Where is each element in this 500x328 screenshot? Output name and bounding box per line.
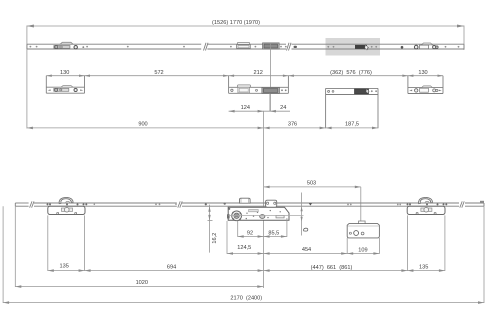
detail box 576 xyxy=(326,88,378,128)
handle hub housing above rail xyxy=(240,198,251,203)
dimension 503 xyxy=(264,181,361,189)
extension line right top xyxy=(463,26,465,51)
svg-text:130: 130 xyxy=(418,70,427,76)
svg-text:187,5: 187,5 xyxy=(345,121,359,127)
dimension 1770 overall top xyxy=(27,20,464,27)
extension striker right xyxy=(378,238,380,254)
roller cam component top-right on rail xyxy=(414,43,438,49)
dimension 124 / 24 xyxy=(229,105,290,112)
extension left comp left xyxy=(47,215,49,271)
tilt lock component bottom-left xyxy=(48,197,85,214)
top rail break left xyxy=(204,43,209,51)
cylinder housing xyxy=(266,200,277,207)
main vertical axis gearbox xyxy=(263,111,265,288)
detail row dimension line xyxy=(46,75,443,77)
screws bottom rail xyxy=(47,203,448,206)
svg-text:694: 694 xyxy=(167,264,176,270)
tilt lock component bottom-right xyxy=(407,197,445,214)
svg-text:(447) 661 (861): (447) 661 (861) xyxy=(311,265,353,271)
extension right comp left xyxy=(406,215,408,271)
svg-text:(1526) 1770 (1970): (1526) 1770 (1970) xyxy=(212,20,260,26)
bottom rail faceplate xyxy=(15,203,484,206)
svg-text:85,5: 85,5 xyxy=(268,231,279,237)
svg-text:124,5: 124,5 xyxy=(237,245,251,251)
dimension 2170 overall bottom xyxy=(3,296,484,304)
extension far left xyxy=(2,206,4,303)
svg-text:900: 900 xyxy=(138,121,147,127)
projection line striker xyxy=(360,187,362,222)
svg-text:24: 24 xyxy=(280,105,286,111)
svg-text:(362) 576 (776): (362) 576 (776) xyxy=(330,70,372,76)
striker box 109 xyxy=(347,221,379,238)
detail box 130 right xyxy=(408,76,443,94)
dimension 92 / 85,5 xyxy=(238,231,287,238)
dimension 1020 xyxy=(15,280,263,288)
svg-text:16,2: 16,2 xyxy=(212,233,218,244)
dimension 124,5 / 454 / 109 xyxy=(227,245,379,255)
svg-text:376: 376 xyxy=(288,121,297,127)
extension right comp right xyxy=(444,215,446,271)
bottom rail break left xyxy=(30,201,34,207)
vertical mark line C xyxy=(229,193,308,236)
svg-text:109: 109 xyxy=(358,247,367,253)
svg-text:2170 (2400): 2170 (2400) xyxy=(230,296,262,302)
rail end mark right xyxy=(480,201,484,203)
dimension 16,2 vertical xyxy=(208,205,219,253)
svg-text:135: 135 xyxy=(60,264,69,270)
svg-text:212: 212 xyxy=(254,70,263,76)
extension hub axis xyxy=(237,221,239,237)
extension left comp right xyxy=(84,215,86,271)
bottom rail break right xyxy=(460,201,464,207)
svg-text:572: 572 xyxy=(154,70,163,76)
dark cam element top-center on rail xyxy=(263,43,280,49)
svg-text:135: 135 xyxy=(419,264,428,270)
extension lock left xyxy=(226,221,228,254)
dimension 135 / 694 / 661 / 135 xyxy=(48,264,445,272)
detail box 130 left xyxy=(46,76,84,94)
extension line 24 right xyxy=(269,93,271,111)
svg-text:503: 503 xyxy=(307,181,316,187)
bottom rail break center xyxy=(178,201,182,207)
extension rail left end xyxy=(14,206,16,287)
top rail faceplate xyxy=(27,44,464,49)
selected dark element in highlight on rail xyxy=(327,45,377,50)
tilt cam component top-left on rail xyxy=(54,42,84,49)
svg-text:124: 124 xyxy=(241,105,250,111)
projection centerline cam element xyxy=(269,44,271,112)
svg-text:92: 92 xyxy=(247,231,253,237)
extension far right xyxy=(483,206,485,303)
highlight box selected element xyxy=(326,38,381,56)
main lock body xyxy=(227,207,289,221)
extension lock right xyxy=(286,218,288,237)
screw holes top rail xyxy=(30,46,460,49)
svg-text:454: 454 xyxy=(302,247,311,253)
detail box 212 center xyxy=(229,76,289,94)
svg-text:1020: 1020 xyxy=(136,280,148,286)
gearbox component top-center on rail xyxy=(237,42,251,48)
dimension 900 / 376 / 187,5 xyxy=(27,121,378,129)
svg-text:130: 130 xyxy=(60,70,69,76)
extension striker left xyxy=(346,238,348,254)
extension line left top xyxy=(26,26,28,129)
top rail break right xyxy=(287,43,292,51)
